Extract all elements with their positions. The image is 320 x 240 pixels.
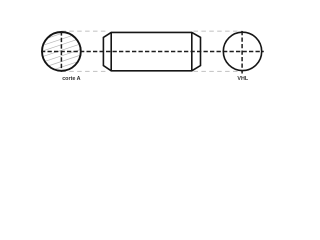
right circle vertical centerline (dashed) (241, 31, 243, 74)
left chamfer line (110, 32, 112, 70)
left section circle outline (corte A) (42, 32, 81, 71)
section hatching inside left circle (42, 32, 82, 70)
svg-text:corte A: corte A (62, 76, 80, 82)
cylinder body outline (side view, white filled) (103, 32, 200, 70)
svg-text:VHL: VHL (237, 76, 248, 82)
left circle vertical centerline (dashed) (60, 31, 62, 72)
right chamfer line (191, 32, 193, 70)
right circle outline (VHL view) (223, 32, 261, 70)
projection tangent line top-left (gray dashed) (61, 30, 108, 32)
main horizontal centerline (dashed) (41, 51, 264, 53)
projection tangent line bottom-right (gray dashed) (194, 70, 243, 72)
projection tangent line top-right (gray dashed) (194, 30, 243, 32)
projection tangent line bottom-left (gray dashed) (61, 70, 108, 72)
